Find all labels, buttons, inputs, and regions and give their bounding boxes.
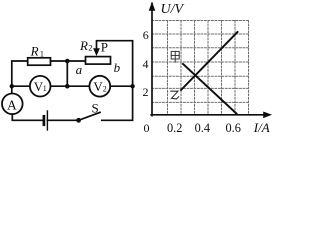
svg-text:0.4: 0.4	[195, 121, 210, 135]
svg-text:a: a	[76, 62, 83, 77]
svg-text:6: 6	[143, 28, 149, 42]
svg-text:I/A: I/A	[253, 120, 270, 135]
wire: junction down to voltmeter row	[66, 61, 68, 86]
resistor R1	[28, 58, 51, 65]
rheostat R2 body	[86, 57, 111, 65]
svg-text:1: 1	[40, 49, 44, 59]
line jia (falling U-I line)	[183, 64, 237, 114]
graph grid horizontal dashed lines	[152, 21, 249, 103]
switch S pivot node	[76, 118, 81, 123]
switch S lever	[79, 112, 100, 120]
svg-text:0.2: 0.2	[167, 121, 182, 135]
voltmeter V1	[30, 76, 51, 97]
svg-text:A: A	[7, 98, 17, 113]
svg-text:P: P	[101, 39, 108, 54]
svg-text:S: S	[92, 100, 99, 115]
wire: V1 to V2 through junction	[51, 85, 90, 87]
ammeter A	[2, 94, 23, 115]
battery negative plate (short thick)	[43, 116, 46, 124]
svg-text:2: 2	[143, 85, 149, 99]
svg-text:R: R	[30, 44, 39, 59]
line yi (rising U-I line)	[181, 32, 238, 90]
voltmeter V2	[89, 76, 110, 97]
wire: ammeter bottom to battery	[12, 114, 43, 120]
node: right rail / voltmeter row junction	[130, 84, 134, 88]
I axis arrowhead	[263, 112, 272, 119]
label jia (Chinese) drawn as strokes	[171, 51, 179, 62]
wire: battery to switch pivot	[47, 119, 76, 121]
wire: V2 to right rail	[110, 85, 132, 87]
svg-text:R: R	[79, 38, 88, 53]
I axis (horizontal)	[151, 114, 264, 116]
U axis (vertical)	[151, 4, 153, 116]
battery positive plate (long thin)	[46, 111, 48, 130]
svg-text:b: b	[114, 60, 121, 75]
svg-text:1: 1	[43, 84, 47, 93]
graph grid vertical dashed lines	[168, 21, 249, 115]
svg-text:2: 2	[88, 43, 92, 53]
U axis arrowhead	[149, 2, 156, 11]
label yi (Chinese) drawn as strokes	[171, 91, 179, 99]
wire: R1 right to rheostat R2 terminal a	[51, 60, 86, 62]
svg-text:U/V: U/V	[161, 2, 185, 17]
svg-text:2: 2	[103, 84, 107, 93]
svg-text:0: 0	[144, 121, 150, 135]
wire: slider stem up, top wire right, right rail down, and switch-side bottom wire	[97, 41, 133, 121]
wire: voltmeter row from left rail to V1	[12, 85, 30, 87]
node: junction of R1, R2 and voltmeter branch	[65, 59, 70, 64]
slider P arrowhead	[93, 48, 100, 56]
svg-text:0.6: 0.6	[226, 121, 241, 135]
node: left rail / voltmeter row junction	[10, 84, 14, 88]
svg-text:4: 4	[143, 57, 149, 71]
node: voltmeter row / junction-branch	[65, 84, 70, 89]
wire: left rail from top-left corner down to ammeter	[12, 61, 28, 94]
